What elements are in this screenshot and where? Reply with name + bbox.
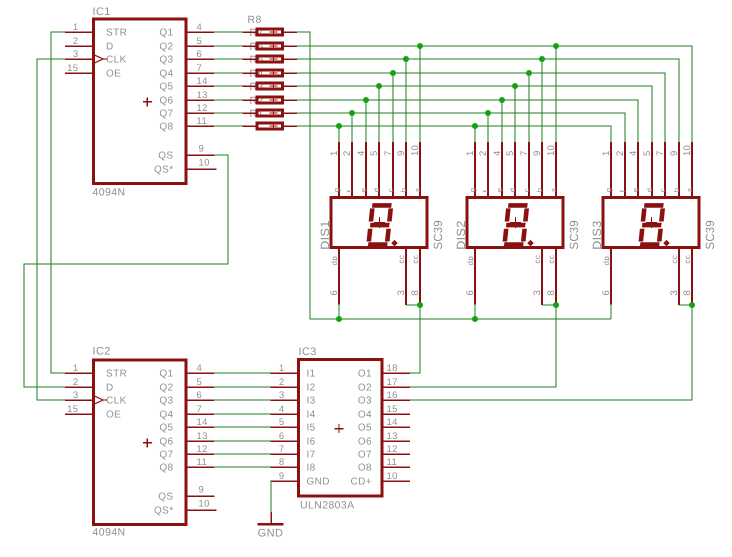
svg-text:CLK: CLK: [106, 396, 127, 407]
svg-text:e: e: [495, 188, 504, 193]
svg-text:7: 7: [655, 150, 666, 156]
IC3 pin 9 stub: [270, 480, 300, 482]
wire segment bus row 7 to DIS3 pin: [297, 113, 625, 142]
junction at DIS1 col3: [363, 97, 369, 103]
svg-text:Q7: Q7: [159, 109, 173, 120]
resistor 1 value cross: [270, 122, 278, 130]
svg-text:14: 14: [197, 76, 208, 87]
wire segment bus row 4 to DIS3 pin: [297, 73, 665, 142]
wire QS IC1 pin9 to IC2 D pin2: [24, 155, 228, 387]
IC3 pin 14 stub: [381, 426, 411, 428]
wire drop to DIS2 pin: [501, 100, 503, 142]
wire drop to DIS1 pin: [338, 126, 340, 142]
IC1 pin 1 stub: [65, 31, 94, 33]
display DIS2 top pin 5 (d): [514, 142, 516, 198]
svg-text:14: 14: [197, 417, 208, 428]
svg-text:10: 10: [199, 158, 210, 169]
wire drop to DIS1 pin: [378, 86, 380, 142]
svg-text:cc: cc: [397, 255, 406, 264]
IC3 pin 5 stub: [270, 426, 300, 428]
resistor 8 value cross: [270, 28, 278, 36]
svg-text:2: 2: [73, 36, 79, 47]
svg-text:1: 1: [279, 363, 285, 374]
display DIS3 top pin 7 (c): [664, 142, 666, 198]
wire drop to DIS1 pin: [419, 46, 421, 142]
svg-text:4094N: 4094N: [93, 187, 126, 199]
svg-text:3: 3: [532, 290, 543, 296]
junction cc DIS1: [417, 302, 423, 308]
resistor 4 left lead: [243, 85, 256, 87]
IC1 origin cross: [143, 97, 152, 106]
wire IC2 Q8 to IC3 I8: [214, 466, 270, 468]
svg-text:CLK: CLK: [106, 55, 127, 66]
IC1 pin 4 stub: [186, 31, 214, 33]
svg-text:cc: cc: [533, 255, 542, 264]
IC1 pin 13 stub: [186, 99, 214, 101]
svg-text:Q5: Q5: [159, 82, 173, 93]
IC3 pin 10 stub: [381, 480, 411, 482]
resistor 6 right lead: [284, 58, 297, 60]
svg-text:Q6: Q6: [159, 437, 173, 448]
svg-text:9: 9: [532, 150, 543, 156]
svg-text:g: g: [332, 188, 341, 193]
IC3 pin 8 stub: [270, 466, 300, 468]
svg-text:Q1: Q1: [159, 369, 173, 380]
display DIS2 dp pin green tail: [474, 305, 476, 319]
svg-text:O3: O3: [358, 396, 372, 407]
svg-text:18: 18: [387, 363, 398, 374]
svg-text:I6: I6: [307, 437, 316, 448]
svg-text:d: d: [508, 188, 517, 193]
svg-text:O7: O7: [358, 450, 372, 461]
svg-text:13: 13: [197, 431, 208, 442]
svg-text:IC2: IC2: [93, 346, 111, 358]
svg-text:dp: dp: [330, 256, 339, 266]
IC3 pin 17 stub: [381, 386, 411, 388]
display DIS2 box: [467, 198, 563, 248]
IC2 pin 15 stub: [65, 413, 94, 415]
svg-text:I4: I4: [307, 410, 316, 421]
svg-text:4094N: 4094N: [93, 527, 126, 539]
svg-text:5: 5: [279, 417, 285, 428]
svg-text:d: d: [645, 188, 654, 193]
svg-text:e: e: [359, 188, 368, 193]
junction at DIS1 col4: [376, 83, 382, 89]
svg-text:Q3: Q3: [159, 396, 173, 407]
svg-text:6: 6: [329, 290, 340, 296]
wire IC3 GND pin to ground: [270, 481, 272, 512]
svg-text:13: 13: [197, 90, 208, 101]
wire IC2 Q6 to IC3 I6: [214, 440, 270, 442]
svg-text:OE: OE: [106, 410, 121, 421]
svg-text:10: 10: [546, 145, 557, 156]
junction at DIS1 col7: [417, 43, 423, 49]
junction at DIS2 col7: [553, 43, 559, 49]
junction at DIS1 col2: [349, 110, 355, 116]
wire IC1 Q2 to resistor: [214, 45, 243, 47]
svg-text:STR: STR: [106, 28, 127, 39]
junction at DIS2 col6: [539, 56, 545, 62]
wire drop to DIS2 pin: [555, 46, 557, 142]
resistor 8 left lead: [243, 31, 256, 33]
svg-text:IC1: IC1: [93, 6, 111, 18]
svg-text:9: 9: [199, 144, 205, 155]
svg-text:Q7: Q7: [159, 450, 173, 461]
svg-text:6: 6: [279, 431, 285, 442]
IC3 pin 12 stub: [381, 453, 411, 455]
junction at DIS1 col1: [336, 123, 342, 129]
svg-text:Q5: Q5: [159, 423, 173, 434]
display DIS1 decimal point mark: [391, 240, 398, 247]
resistor 3 left lead: [243, 99, 256, 101]
svg-text:2: 2: [615, 150, 626, 156]
IC1 pin 11 stub: [186, 125, 214, 127]
wire IC1 Q7 to resistor: [214, 112, 243, 114]
display DIS1 bottom pin 8 (cc): [419, 248, 421, 305]
wire segment bus row 5 to DIS3 pin: [297, 86, 652, 142]
IC2 pin 12 stub: [186, 453, 214, 455]
IC3 pin 4 stub: [270, 413, 300, 415]
svg-text:Q4: Q4: [159, 410, 173, 421]
IC3 origin cross: [335, 424, 344, 433]
svg-text:3: 3: [279, 390, 285, 401]
svg-text:D: D: [106, 42, 114, 53]
svg-text:GND: GND: [258, 528, 284, 540]
IC3 pin 18 stub: [381, 372, 411, 374]
IC1 pin 6 stub: [186, 58, 214, 60]
resistor body 3: [257, 97, 283, 103]
display DIS1 bottom pin 3 (cc): [405, 248, 407, 305]
svg-text:1: 1: [73, 363, 79, 374]
resistor 1 left lead: [243, 125, 256, 127]
svg-text:2: 2: [279, 377, 285, 388]
IC3 ULN2803A box: [299, 360, 383, 497]
IC1 pin 14 stub: [186, 85, 214, 87]
junction at DIS2 col5: [526, 70, 532, 76]
svg-text:4: 4: [197, 363, 203, 374]
svg-text:2: 2: [73, 377, 79, 388]
svg-text:7: 7: [383, 150, 394, 156]
wire segment bus row 3 to DIS3 pin: [297, 59, 679, 142]
junction dp at DIS2: [472, 316, 478, 322]
svg-text:13: 13: [387, 431, 398, 442]
resistor body 8: [257, 29, 283, 35]
svg-text:OE: OE: [106, 69, 121, 80]
IC3 pin 16 stub: [381, 399, 411, 401]
display DIS1 top pin 2 (f): [351, 142, 353, 198]
svg-text:ULN2803A: ULN2803A: [300, 500, 355, 512]
svg-text:a: a: [685, 187, 694, 192]
display DIS1 top pin 9 (b): [405, 142, 407, 198]
svg-text:5: 5: [197, 377, 203, 388]
IC2 origin cross: [143, 438, 152, 447]
IC3 pin 13 stub: [381, 440, 411, 442]
svg-text:Q4: Q4: [159, 69, 173, 80]
svg-text:O4: O4: [358, 410, 372, 421]
svg-text:12: 12: [197, 444, 208, 455]
svg-text:QS: QS: [158, 151, 173, 162]
IC2 pin 4 stub: [186, 372, 214, 374]
svg-text:Q3: Q3: [159, 55, 173, 66]
svg-text:3: 3: [73, 390, 79, 401]
svg-text:O6: O6: [358, 437, 372, 448]
IC3 pin 1 stub: [270, 372, 300, 374]
svg-text:cc: cc: [547, 255, 556, 264]
junction at DIS2 col3: [499, 97, 505, 103]
svg-text:Q2: Q2: [159, 42, 173, 53]
wire IC2 Q4 to IC3 I4: [214, 413, 270, 415]
svg-text:c: c: [658, 188, 667, 192]
svg-text:d: d: [372, 188, 381, 193]
svg-text:8: 8: [682, 290, 693, 296]
svg-text:cc: cc: [411, 255, 420, 264]
resistor 5 right lead: [284, 72, 297, 74]
IC1 pin 10 stub (QS*): [186, 168, 217, 170]
svg-text:3: 3: [669, 290, 680, 296]
wire cc of DIS2 to IC3 O2: [410, 305, 556, 387]
IC2 pin 1 stub: [65, 372, 94, 374]
svg-text:GND: GND: [307, 477, 330, 488]
svg-text:5: 5: [197, 36, 203, 47]
svg-text:17: 17: [387, 377, 398, 388]
junction at DIS2 col4: [512, 83, 518, 89]
IC3 pin 11 stub: [381, 466, 411, 468]
IC1 pin 15 stub: [65, 72, 94, 74]
wire drop to DIS2 pin: [528, 73, 530, 142]
wire drop to DIS2 pin: [474, 126, 476, 142]
svg-text:3: 3: [396, 290, 407, 296]
display DIS3 top pin 9 (b): [678, 142, 680, 198]
svg-text:STR: STR: [106, 369, 127, 380]
display DIS3 box: [603, 198, 699, 248]
wire IC1 Q8 to resistor: [214, 125, 243, 127]
IC1 pin 2 stub: [65, 45, 94, 47]
svg-text:10: 10: [410, 145, 421, 156]
junction cc DIS2: [553, 302, 559, 308]
svg-text:5: 5: [505, 150, 516, 156]
resistor body 1: [257, 123, 283, 129]
wire drop to DIS1 pin: [405, 59, 407, 142]
display DIS3 dp pin green tail: [610, 305, 612, 319]
svg-text:15: 15: [67, 63, 78, 74]
display DIS1 top pin 5 (d): [378, 142, 380, 198]
svg-text:4: 4: [628, 150, 639, 156]
IC2 pin 6 stub: [186, 399, 214, 401]
svg-text:10: 10: [387, 471, 398, 482]
wire drop to DIS1 pin: [365, 100, 367, 142]
display DIS3 bottom pin 8 (cc): [691, 248, 693, 305]
svg-text:8: 8: [410, 290, 421, 296]
svg-text:6: 6: [465, 290, 476, 296]
display DIS2 cc bridge wire: [542, 304, 556, 306]
svg-text:QS*: QS*: [154, 506, 174, 517]
display DIS2 seven-segment digit 8: [504, 205, 527, 244]
IC3 pin 3 stub: [270, 399, 300, 401]
svg-text:5: 5: [369, 150, 380, 156]
display DIS1 dp pin green tail: [338, 305, 340, 319]
display DIS3 digit origin cross: [646, 217, 657, 228]
display DIS1 seven-segment digit 8: [368, 205, 391, 244]
svg-text:I3: I3: [307, 396, 316, 407]
wire IC2 Q7 to IC3 I7: [214, 453, 270, 455]
resistor 6 left lead: [243, 58, 256, 60]
resistor 8 right lead: [284, 31, 297, 33]
wire cc of DIS3 to IC3 O3: [410, 305, 692, 400]
display DIS2 bottom pin 3 (cc): [541, 248, 543, 305]
svg-text:8: 8: [279, 457, 285, 468]
display DIS2 top pin 10 (a): [555, 142, 557, 198]
IC2 pin 7 stub: [186, 413, 214, 415]
svg-text:9: 9: [396, 150, 407, 156]
svg-text:12: 12: [387, 444, 398, 455]
display DIS3 decimal point mark: [663, 240, 670, 247]
resistor 5 value cross: [270, 69, 278, 77]
resistor 2 value cross: [270, 109, 278, 117]
display DIS1 top pin 7 (c): [392, 142, 394, 198]
svg-text:4: 4: [197, 22, 203, 33]
display DIS1 cc bridge wire: [406, 304, 420, 306]
wire drop to DIS1 pin: [392, 73, 394, 142]
svg-text:15: 15: [387, 404, 398, 415]
IC3 pin 6 stub: [270, 440, 300, 442]
ground symbol stem: [270, 512, 272, 523]
svg-text:Q8: Q8: [159, 122, 173, 133]
svg-text:QS: QS: [158, 492, 173, 503]
IC3 pin 2 stub: [270, 386, 300, 388]
wire IC2 Q3 to IC3 I3: [214, 399, 270, 401]
display DIS3 top pin 4 (e): [637, 142, 639, 198]
resistor 4 value cross: [270, 82, 278, 90]
wire drop to DIS2 pin: [514, 86, 516, 142]
svg-text:12: 12: [197, 103, 208, 114]
resistor body 7: [257, 43, 283, 49]
junction at DIS1 col6: [403, 56, 409, 62]
display DIS2 top pin 4 (e): [501, 142, 503, 198]
svg-text:cc: cc: [683, 255, 692, 264]
IC2 pin 2 stub: [65, 386, 94, 388]
svg-text:9: 9: [669, 150, 680, 156]
wire segment bus row 8 to DIS3 pin: [297, 126, 611, 142]
wire IC1 Q1 to resistor: [214, 31, 243, 33]
svg-text:O5: O5: [358, 423, 372, 434]
svg-text:QS*: QS*: [154, 165, 174, 176]
IC2 CLK pin inner dash: [103, 399, 107, 401]
wire IC2 Q1 to IC3 I1: [214, 372, 270, 374]
svg-text:9: 9: [199, 485, 205, 496]
resistor 5 left lead: [243, 72, 256, 74]
IC2 pin 3 stub: [65, 399, 94, 401]
display DIS3 cc bridge wire: [679, 304, 692, 306]
svg-text:b: b: [535, 188, 544, 193]
IC3 pin 15 stub: [381, 413, 411, 415]
junction dp at DIS1: [336, 316, 342, 322]
svg-text:b: b: [672, 188, 681, 193]
display DIS1 top pin 1 (g): [338, 142, 340, 198]
display DIS2 bottom pin 6 (dp): [474, 248, 476, 305]
svg-text:I8: I8: [307, 463, 316, 474]
svg-text:I5: I5: [307, 423, 316, 434]
display DIS1 top pin 10 (a): [419, 142, 421, 198]
wire IC1 Q6 to resistor: [214, 99, 243, 101]
svg-text:4: 4: [279, 404, 285, 415]
display DIS2 top pin 1 (g): [474, 142, 476, 198]
svg-text:9: 9: [279, 471, 285, 482]
display DIS1 box: [331, 198, 427, 248]
svg-text:4: 4: [356, 150, 367, 156]
display DIS2 decimal point mark: [527, 240, 534, 247]
wire IC1 Q5 to resistor: [214, 85, 243, 87]
svg-text:e: e: [631, 188, 640, 193]
resistor 2 right lead: [284, 112, 297, 114]
svg-text:1: 1: [601, 150, 612, 156]
svg-text:4: 4: [492, 150, 503, 156]
wire IC1 Q3 to resistor: [214, 58, 243, 60]
wire IC2 Q5 to IC3 I5: [214, 426, 270, 428]
resistor 3 right lead: [284, 99, 297, 101]
resistor 2 left lead: [243, 112, 256, 114]
IC2 pin 14 stub: [186, 426, 214, 428]
display DIS2 bottom pin 8 (cc): [555, 248, 557, 305]
display DIS3 top pin 1 (g): [610, 142, 612, 198]
svg-text:6: 6: [197, 390, 203, 401]
svg-text:8: 8: [546, 290, 557, 296]
svg-text:7: 7: [519, 150, 530, 156]
svg-text:DIS3: DIS3: [590, 220, 604, 250]
wire segment bus row 2 to DIS3 pin: [297, 46, 692, 142]
display DIS2 top pin 2 (f): [487, 142, 489, 198]
svg-text:Q8: Q8: [159, 463, 173, 474]
svg-text:7: 7: [197, 404, 203, 415]
resistor 3 value cross: [270, 96, 278, 104]
junction at DIS2 col1: [472, 123, 478, 129]
IC2 pin 13 stub: [186, 440, 214, 442]
svg-text:R8: R8: [248, 14, 262, 26]
IC2 pin 5 stub: [186, 386, 214, 388]
display DIS3 top pin 5 (d): [651, 142, 653, 198]
display DIS3 top pin 10 (a): [691, 142, 693, 198]
svg-text:6: 6: [601, 290, 612, 296]
junction at DIS1 col5: [390, 70, 396, 76]
svg-text:SC39: SC39: [703, 220, 717, 250]
display DIS1 bottom pin 6 (dp): [338, 248, 340, 305]
svg-text:cc: cc: [670, 255, 679, 264]
resistor 7 left lead: [243, 45, 256, 47]
display DIS2 top pin 7 (c): [528, 142, 530, 198]
svg-text:I7: I7: [307, 450, 316, 461]
junction cc DIS3: [689, 302, 695, 308]
svg-text:1: 1: [73, 22, 79, 33]
IC2 pin 9 stub (QS): [186, 495, 215, 497]
svg-text:O2: O2: [358, 383, 372, 394]
IC2 CLK triangle: [95, 396, 104, 404]
svg-text:c: c: [386, 188, 395, 192]
display DIS1 digit origin cross: [374, 217, 385, 228]
svg-text:I1: I1: [307, 369, 316, 380]
svg-text:O8: O8: [358, 463, 372, 474]
wire IC1 Q4 to resistor: [214, 72, 243, 74]
svg-text:DIS1: DIS1: [318, 220, 332, 250]
svg-text:IC3: IC3: [299, 346, 317, 358]
svg-text:I2: I2: [307, 383, 316, 394]
resistor 1 right lead: [284, 125, 297, 127]
resistor 4 right lead: [284, 85, 297, 87]
IC1 pin 5 stub: [186, 45, 214, 47]
display DIS3 top pin 2 (f): [624, 142, 626, 198]
svg-text:Q2: Q2: [159, 383, 173, 394]
wire CLK chain IC1 pin3 to IC2 pin3: [37, 59, 65, 400]
IC1 CLK pin inner dash: [103, 58, 107, 60]
IC2 pin 11 stub: [186, 466, 214, 468]
